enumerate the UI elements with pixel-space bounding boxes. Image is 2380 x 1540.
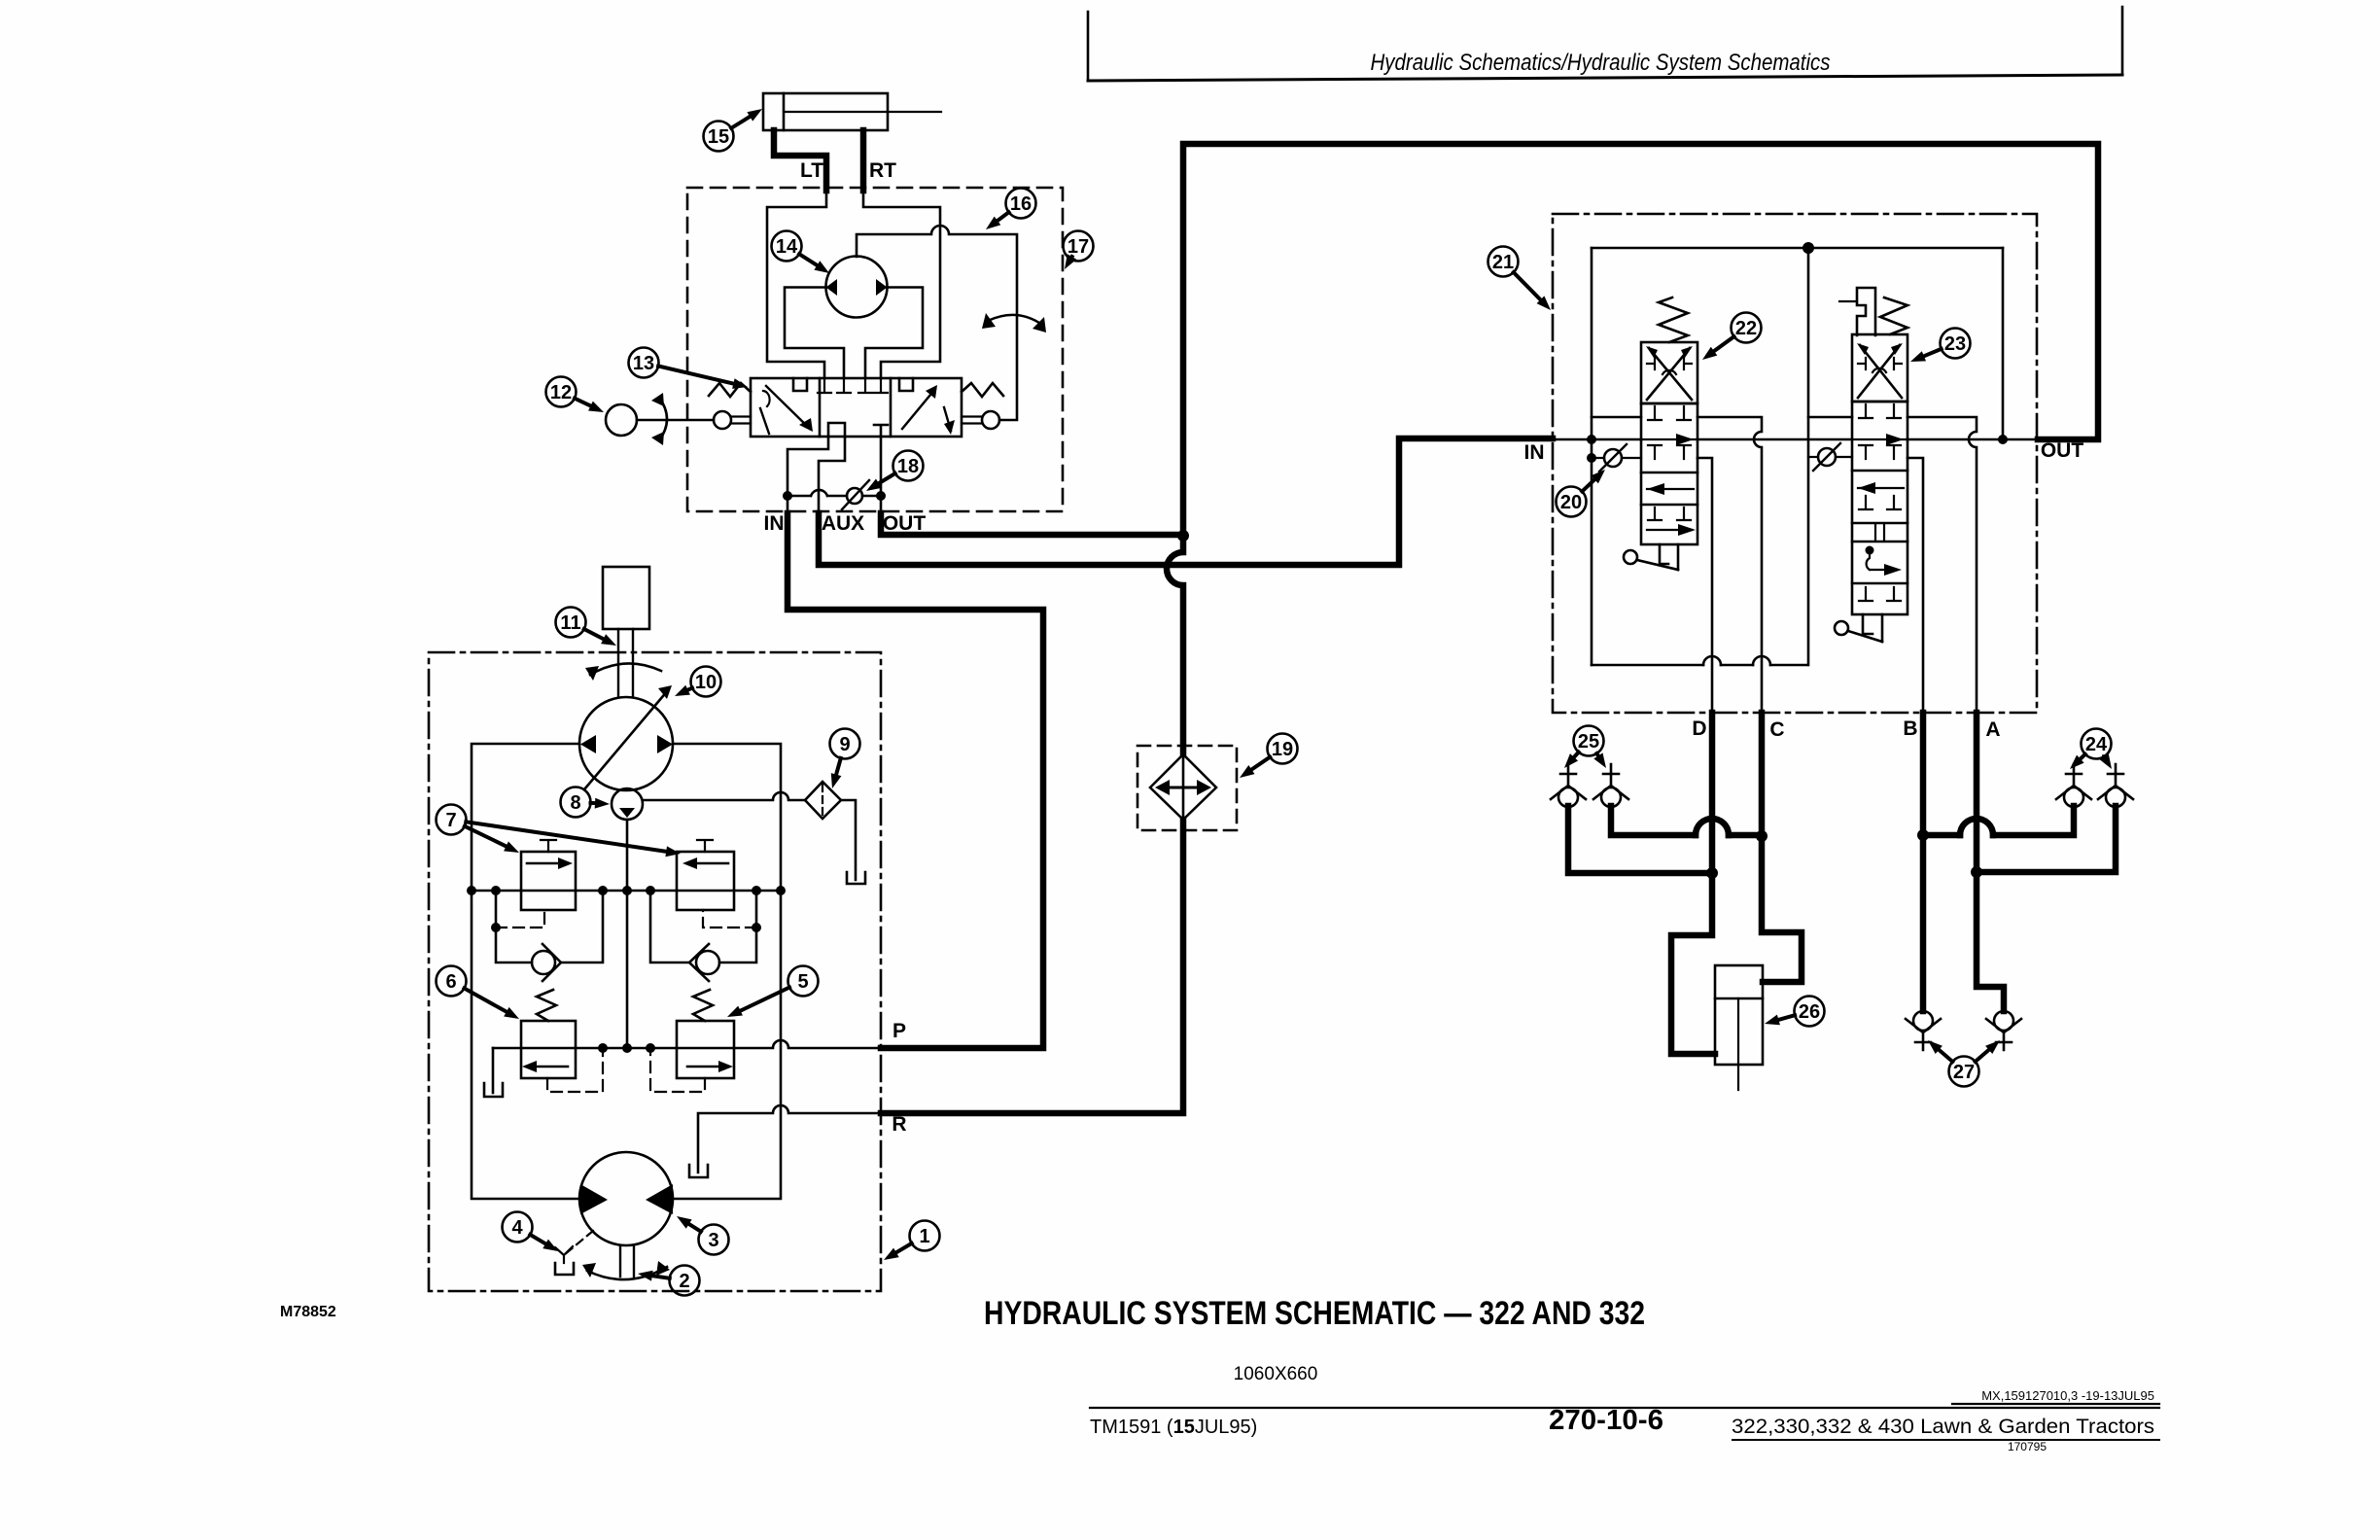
svg-text:15: 15	[708, 126, 729, 148]
label 10	[675, 667, 721, 697]
coupler 27 right	[1986, 1011, 2021, 1050]
valve 13 right pilot circle	[982, 411, 999, 429]
label 11	[556, 608, 617, 647]
label 12	[546, 377, 605, 413]
tank symbol relief 6	[484, 1083, 503, 1097]
relief valve 6 box	[521, 1021, 576, 1078]
svg-text:AUX: AUX	[822, 512, 864, 535]
revision underline	[1952, 1403, 2159, 1405]
svg-text:4: 4	[511, 1217, 523, 1239]
pipe RT port	[860, 130, 867, 191]
node top junction	[1802, 242, 1814, 254]
wire bypass line 16	[857, 226, 1017, 420]
wire valve to IN port	[787, 437, 828, 513]
variable pump 10 circle	[579, 697, 673, 790]
label 20	[1557, 470, 1606, 517]
cylinder 15 rod	[784, 111, 941, 113]
valve 22 section2 left arrow	[1647, 488, 1694, 490]
control valve dash-dot enclosure	[1553, 214, 2037, 713]
wire valve 23 to B	[1907, 458, 1923, 713]
header frame left vertical	[1087, 12, 1090, 81]
label 13	[629, 348, 749, 389]
cylinder 26 body	[1715, 965, 1763, 1065]
pump assembly dash-dot enclosure	[429, 652, 881, 1291]
svg-text:10: 10	[695, 672, 717, 693]
header frame right vertical	[2121, 7, 2124, 75]
wire check valve left circuit	[496, 891, 603, 962]
relief valve 5 spring	[693, 990, 713, 1021]
svg-text:HYDRAULIC SYSTEM SCHEMATIC — 3: HYDRAULIC SYSTEM SCHEMATIC — 322 AND 332	[984, 1295, 1645, 1332]
pilot line relief 7 left	[496, 910, 544, 927]
svg-text:25: 25	[1578, 731, 1599, 752]
label 25	[1564, 726, 1606, 769]
svg-text:1060X660: 1060X660	[1234, 1364, 1318, 1384]
charge pump 8 circle	[612, 788, 643, 820]
valve 23 bottom port marks	[1859, 587, 1901, 601]
wire inner circuit right riser	[2002, 248, 2005, 439]
svg-text:13: 13	[633, 353, 654, 374]
filter 19 element line	[1182, 754, 1185, 820]
svg-text:17: 17	[1067, 236, 1089, 258]
valve 13 section dividers	[819, 378, 822, 437]
cylinder 26 rod	[1737, 998, 1739, 1090]
steering wheel circle 12	[606, 404, 637, 436]
valve 23 regen section	[1866, 546, 1874, 555]
valve 22 lever	[1660, 544, 1678, 570]
engine block rectangle	[603, 567, 649, 629]
svg-text:LT: LT	[800, 159, 823, 182]
label 19	[1240, 734, 1298, 779]
pump 10 left triangle	[580, 735, 596, 753]
svg-text:322,330,332 & 430 Lawn & Garde: 322,330,332 & 430 Lawn & Garden Tractors	[1732, 1416, 2154, 1438]
motor 3 output shaft 2	[620, 1245, 634, 1277]
relief valve 7 right box	[677, 852, 734, 910]
bypass swing arrow	[988, 315, 1042, 325]
label 14	[772, 231, 830, 274]
filter 19 flow arrows	[1160, 787, 1207, 789]
traction motor 3 circle	[579, 1152, 673, 1245]
svg-text:D: D	[1692, 717, 1706, 740]
valve 22 spring	[1659, 297, 1688, 342]
pump 10 right triangle	[657, 735, 673, 753]
label 7	[437, 805, 682, 857]
pipe coupler 24 left to B	[1923, 806, 2074, 835]
svg-text:26: 26	[1799, 1001, 1820, 1023]
label 21	[1488, 247, 1552, 311]
wire inner circuit right vertical	[1807, 248, 1810, 665]
charge pump 8 triangle	[619, 808, 635, 818]
wire: vertical below filter down to R turn	[881, 820, 1183, 1113]
valve 22 section3 right arrow	[1647, 529, 1692, 531]
case drain 4	[564, 1231, 593, 1263]
wire pump left to motor left	[472, 744, 579, 1199]
coupler 25 left	[1551, 764, 1586, 807]
header frame bottom rule	[1088, 75, 2122, 81]
relief valve 6 spring	[537, 990, 556, 1021]
valve 13 right pilot rod	[962, 417, 982, 424]
wire charge pump down to manifold	[626, 820, 629, 1048]
relief 22 crossed arrows	[1647, 348, 1692, 400]
steering motor 14 circle	[826, 257, 888, 318]
valve 13 left envelope flow arrow	[766, 386, 810, 429]
svg-text:6: 6	[445, 971, 456, 993]
filter 19 diamond	[1150, 754, 1216, 820]
svg-text:8: 8	[570, 792, 580, 814]
wire valve to AUX port	[819, 437, 845, 513]
svg-text:18: 18	[897, 456, 919, 477]
valve 23 section2 left arrow	[1858, 487, 1904, 489]
valve 23 lever	[1863, 614, 1882, 642]
check valve 20	[1595, 457, 1604, 459]
wire motor left loop	[785, 288, 844, 379]
coupler 24 left	[2056, 764, 2091, 807]
wire valve 22 to D	[1697, 458, 1712, 713]
valve 23 float section bars	[1875, 525, 1884, 540]
node C junction	[1756, 830, 1767, 842]
svg-text:20: 20	[1560, 492, 1582, 513]
label 2	[638, 1266, 700, 1296]
svg-text:23: 23	[1944, 333, 1966, 355]
wire LT inside box	[767, 191, 826, 378]
valve 23 relief envelope	[1852, 334, 1907, 402]
wire inner circuit left vertical	[1591, 248, 1593, 665]
relief valve 7 left box	[521, 852, 576, 910]
wire valve 23 top port branch	[1808, 416, 1852, 419]
svg-text:MX,159127010,3 -19-13JUL95: MX,159127010,3 -19-13JUL95	[1981, 1388, 2154, 1403]
svg-text:270-10-6: 270-10-6	[1549, 1405, 1663, 1436]
pipe A port	[1977, 713, 2004, 1011]
motor 3 left triangle	[580, 1184, 608, 1214]
valve 13 left pilot circle	[714, 411, 731, 429]
wire: steering AUX down, right, up to control valve IN	[819, 438, 1553, 565]
node IN junction upper	[1587, 435, 1596, 444]
valve 23 section2 port marks	[1859, 496, 1901, 509]
node OUT junction	[1998, 435, 2008, 444]
wire: junction dot OUT/return	[1177, 530, 1189, 542]
svg-text:OUT: OUT	[883, 512, 927, 535]
svg-text:Hydraulic Schematics/Hydraulic: Hydraulic Schematics/Hydraulic System Sc…	[1371, 50, 1831, 76]
cylinder 26 piston	[1715, 997, 1763, 1000]
label 9	[830, 729, 860, 789]
valve 22 relief envelope	[1641, 342, 1697, 403]
wire: vertical hop over AUX line	[1167, 539, 1183, 754]
pipe coupler 24 right to A	[1977, 806, 2116, 872]
pilot line relief 7 right	[703, 910, 756, 927]
wire IN gallery line	[1553, 438, 2038, 441]
valve 23 detent	[1857, 288, 1875, 335]
valve 22 IN flow arrow	[1641, 438, 1697, 440]
model underline	[1732, 1439, 2159, 1441]
label 23	[1910, 329, 1971, 363]
filter 19 dashed box	[1137, 746, 1237, 830]
pipe D port	[1671, 713, 1715, 1054]
motor 3 right triangle	[646, 1184, 673, 1214]
pipe B port	[1920, 713, 1927, 1011]
node D junction	[1706, 867, 1718, 879]
steering motor right triangle	[876, 279, 888, 296]
pipe coupler 25 left to D	[1568, 806, 1712, 873]
input shaft 11	[618, 629, 633, 697]
label 1	[884, 1221, 940, 1261]
label 6	[437, 966, 520, 1020]
svg-text:14: 14	[776, 236, 798, 258]
svg-text:7: 7	[445, 810, 456, 831]
valve 23 section1 port marks	[1859, 404, 1901, 418]
svg-text:IN: IN	[764, 512, 785, 535]
check valve 18	[847, 488, 862, 504]
wire valve 22 top port branch	[1592, 416, 1641, 419]
valve 22 section3 marks	[1648, 507, 1691, 520]
label 24	[2070, 729, 2112, 770]
relief 23 crossed arrows	[1858, 345, 1902, 398]
check valve 23 inlet	[1808, 456, 1818, 458]
pipe LT port	[774, 130, 826, 191]
wire motor right loop	[865, 288, 923, 379]
svg-text:22: 22	[1735, 318, 1757, 339]
valve 23 IN flow arrow	[1852, 438, 1907, 440]
node manifold dots	[467, 886, 476, 895]
node A junction	[1971, 866, 1982, 878]
label 22	[1702, 313, 1762, 361]
tank symbol filter drain	[847, 872, 865, 884]
valve 13 top notches	[793, 378, 913, 391]
valve 23 spring	[1880, 297, 1907, 334]
valve 13 left spring	[709, 383, 751, 397]
steering wheel swing arrow	[659, 398, 667, 440]
label 17	[1064, 231, 1094, 270]
valve 22 spool body	[1641, 403, 1697, 544]
node OUT junction	[876, 491, 886, 501]
label 26	[1765, 997, 1825, 1027]
wire inner circuit bottom line	[1592, 664, 1807, 667]
svg-text:170795: 170795	[2008, 1440, 2047, 1453]
coupler 24 right	[2098, 764, 2133, 807]
pipe: control valve OUT up and across to center	[1183, 144, 2098, 533]
svg-text:2: 2	[679, 1271, 689, 1292]
coupler 27 left	[1906, 1011, 1941, 1050]
svg-text:A: A	[1985, 718, 2000, 741]
valve 13 right envelope flow arrow	[902, 389, 935, 429]
svg-text:11: 11	[560, 612, 580, 634]
node B junction	[1917, 829, 1929, 841]
label 15	[704, 109, 763, 152]
node IN junction	[783, 491, 792, 501]
wire: steering IN (P supply) down right down to P port	[787, 513, 1043, 1048]
label 18	[866, 451, 924, 492]
wire manifold upper line	[472, 890, 781, 892]
svg-text:19: 19	[1272, 739, 1293, 760]
svg-text:M78852: M78852	[280, 1304, 336, 1320]
wire manifold lower line / P line	[493, 1040, 881, 1048]
valve 13 right spring	[962, 383, 1003, 397]
svg-text:RT: RT	[869, 159, 896, 182]
svg-text:27: 27	[1953, 1062, 1975, 1083]
valve 22 section1 port marks	[1648, 406, 1691, 420]
wire valve 23 to A	[1907, 417, 1977, 713]
shaft rotation arrow	[590, 663, 661, 675]
valve 13 top ports	[818, 378, 888, 393]
wire check valve 18 line	[787, 490, 881, 496]
valve 13 left pilot rod	[731, 417, 751, 424]
wire check valve right circuit	[650, 891, 756, 962]
valve 13 center bottom ports	[828, 423, 888, 437]
wire tank drain relief 6	[492, 1048, 495, 1093]
pipe C port	[1762, 713, 1802, 982]
wire valve 22 to C	[1697, 417, 1762, 713]
check valve right	[696, 951, 719, 974]
node IN junction lower	[1587, 453, 1596, 463]
wire filter 9 drain	[841, 800, 856, 880]
pump 10 variable arrow	[584, 690, 668, 789]
label 4	[503, 1212, 559, 1252]
svg-text:1: 1	[919, 1226, 929, 1247]
wire RT inside box	[863, 191, 940, 378]
svg-text:3: 3	[708, 1230, 718, 1251]
label 27	[1928, 1040, 2000, 1087]
wire valve to OUT port	[880, 437, 883, 513]
check valve left	[532, 951, 555, 974]
filter 9 diamond	[805, 782, 841, 819]
svg-text:IN: IN	[1524, 441, 1545, 464]
svg-text:9: 9	[839, 734, 850, 755]
wire R return line	[698, 1105, 881, 1172]
svg-text:P: P	[892, 1020, 906, 1042]
valve 23 spool body	[1852, 402, 1907, 614]
tank symbol drain 4	[555, 1263, 574, 1275]
wire inner circuit top line	[1592, 247, 2003, 250]
tank symbol R return	[689, 1165, 708, 1177]
coupler 25 right	[1593, 764, 1628, 807]
svg-text:5: 5	[797, 971, 808, 993]
valve 13 body	[751, 378, 962, 437]
label 3	[677, 1216, 729, 1255]
steering valve dashed enclosure	[687, 188, 1063, 511]
pipe coupler 25 right to C	[1611, 806, 1762, 835]
wire pump right to motor right	[673, 744, 781, 1199]
svg-text:R: R	[892, 1113, 906, 1136]
footer rule	[1090, 1407, 2159, 1409]
svg-text:24: 24	[2085, 734, 2108, 755]
cylinder 15 piston	[783, 93, 786, 130]
svg-text:C: C	[1769, 718, 1784, 741]
label 8	[561, 787, 611, 818]
svg-text:TM1591 (15JUL95): TM1591 (15JUL95)	[1090, 1417, 1257, 1438]
pilot line relief 6	[547, 1048, 603, 1092]
svg-text:12: 12	[550, 382, 572, 403]
svg-text:21: 21	[1492, 252, 1514, 273]
cylinder 15 body	[763, 93, 888, 130]
steering wheel shaft	[637, 419, 714, 422]
svg-text:16: 16	[1010, 193, 1032, 215]
wire charge pump to filter 9	[643, 792, 805, 800]
pilot line relief 5	[650, 1048, 705, 1092]
label 5	[727, 966, 819, 1018]
svg-text:OUT: OUT	[2041, 439, 2084, 462]
shaft 2 rotation arrow	[587, 1267, 667, 1279]
wire: steering OUT down and right to return junction	[881, 513, 1180, 535]
label 16	[986, 189, 1036, 230]
relief valve 5 box	[677, 1021, 734, 1078]
svg-text:B: B	[1903, 717, 1917, 740]
steering motor left triangle	[826, 279, 838, 296]
